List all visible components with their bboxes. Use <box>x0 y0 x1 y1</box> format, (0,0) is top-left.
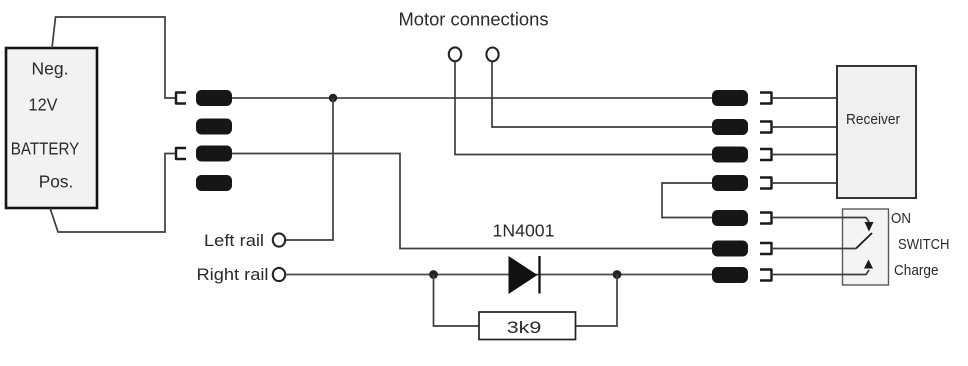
svg-text:Receiver: Receiver <box>846 111 900 128</box>
battery B1 <box>6 48 97 208</box>
svg-text:Charge: Charge <box>894 262 939 279</box>
connector fork at right pin 4 <box>760 178 772 189</box>
Right rail terminal <box>273 268 285 281</box>
junction diode cathode <box>613 270 622 279</box>
wire right pin 5 fork to switch ON contact <box>772 218 870 223</box>
left connector pin 1 <box>196 90 232 106</box>
switch ON contact arrow <box>865 222 874 232</box>
resistor R1 3k9 <box>479 312 576 340</box>
wire resistor branch right <box>576 275 618 327</box>
svg-text:Motor connections: Motor connections <box>399 10 549 30</box>
wire resistor branch left <box>434 275 480 327</box>
right connector pin 7 <box>712 267 748 283</box>
wire bracket right pin 4 to right pin 5 <box>662 183 712 218</box>
wire battery positive to left connector pin 3 <box>50 154 176 233</box>
svg-text:Pos.: Pos. <box>39 172 74 192</box>
wire right pin 6 fork to switch common pole <box>772 248 857 250</box>
wire left pin 1 to right pin 1 (negative rail) <box>232 97 712 99</box>
wire motor terminal 2 to right pin 2 <box>492 62 712 128</box>
wire right pin 3 fork to receiver <box>772 154 838 156</box>
receiver U1 <box>837 66 916 198</box>
svg-text:12V: 12V <box>29 95 58 115</box>
svg-text:3k9: 3k9 <box>507 318 542 337</box>
svg-text:SWITCH: SWITCH <box>898 236 950 253</box>
left connector pin 3 <box>196 146 232 162</box>
connector fork at right pin 2 <box>760 122 772 133</box>
motor terminal 1 <box>449 47 461 61</box>
connector fork at left pin 1 <box>176 93 186 104</box>
switch Charge contact arrow <box>864 260 873 269</box>
svg-text:BATTERY: BATTERY <box>11 139 80 159</box>
connector fork at right pin 7 <box>760 270 772 281</box>
diode D1 cathode bar <box>538 256 540 294</box>
right connector pin 6 <box>712 241 748 257</box>
wire left pin 3 to right pin 6 (positive feed) <box>232 154 712 249</box>
right connector pin 3 <box>712 147 748 163</box>
junction left rail tap <box>329 94 337 102</box>
wire right pin 4 fork to receiver <box>772 182 838 184</box>
wire right pin 1 fork to receiver <box>772 97 838 99</box>
wire junction to Left rail terminal <box>286 98 334 240</box>
svg-text:1N4001: 1N4001 <box>493 221 555 241</box>
connector fork at right pin 3 <box>760 149 772 160</box>
connector fork at right pin 6 <box>760 243 772 254</box>
connector fork at right pin 5 <box>760 213 772 224</box>
switch lever <box>856 233 872 249</box>
motor terminal 2 <box>486 48 498 62</box>
right connector pin 4 <box>712 175 748 191</box>
Left rail terminal <box>273 233 285 246</box>
wire battery negative to left connector pin 1 <box>52 17 176 98</box>
switch S1 body <box>843 209 889 285</box>
diode D1 1N4001 triangle <box>509 256 538 294</box>
wire Right rail terminal to right pin 7 <box>286 274 713 276</box>
svg-text:Left rail: Left rail <box>204 231 264 250</box>
right connector pin 2 <box>712 119 748 135</box>
wire right pin 7 fork to switch Charge contact <box>772 270 870 275</box>
connector fork at right pin 1 <box>760 93 772 104</box>
wire right pin 2 fork to receiver <box>772 126 838 128</box>
svg-text:ON: ON <box>891 210 911 227</box>
right connector pin 1 <box>712 90 748 106</box>
svg-text:Neg.: Neg. <box>32 59 69 79</box>
left connector pin 4 <box>196 175 232 191</box>
right connector pin 5 <box>712 210 748 226</box>
junction diode anode <box>429 270 438 279</box>
connector fork at left pin 3 <box>176 148 186 159</box>
svg-text:Right rail: Right rail <box>197 265 269 284</box>
left connector pin 2 <box>196 119 232 135</box>
wire motor terminal 1 to right pin 3 <box>455 62 712 155</box>
